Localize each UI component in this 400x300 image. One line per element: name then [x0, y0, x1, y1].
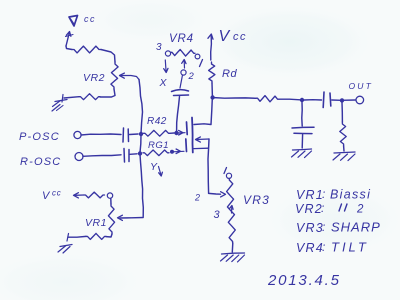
potentiometer VR4 body: [171, 50, 195, 57]
transistor Q1 gate-2 bar: [186, 122, 189, 135]
svg-text:VR1: VR1: [85, 217, 107, 229]
svg-text:R-OSC: R-OSC: [20, 156, 61, 168]
legend line VR4: [296, 240, 369, 256]
resistor (VR1 upper feed): [84, 192, 105, 198]
resistor (Vcc feed, top-left): [72, 46, 101, 53]
capacitor C3 (VR4 wiper): [172, 75, 189, 131]
wire Rd to drain node: [211, 83, 213, 97]
svg-text:VR1: VR1: [296, 188, 324, 202]
VR1 top terminal ring: [107, 193, 112, 198]
wire VR3 to ground: [231, 243, 234, 252]
svg-text:3: 3: [156, 42, 162, 53]
arrowhead to VR1 wiper: [118, 215, 123, 220]
svg-text:TILT: TILT: [331, 240, 369, 255]
resistor R42: [144, 116, 171, 136]
pin 3 label (VR4): [156, 42, 162, 53]
svg-text:2013.4.5: 2013.4.5: [267, 272, 341, 289]
node Y (source label): [150, 161, 162, 176]
potentiometer VR1: [85, 204, 115, 234]
ground (top-left): [52, 100, 67, 112]
wire bias rail (VR2 wiper down to VR1 wiper): [120, 80, 143, 219]
node P-OSC terminal: [19, 131, 81, 143]
svg-text:3: 3: [214, 209, 221, 221]
svg-text:V: V: [219, 28, 231, 45]
svg-text:VR4: VR4: [296, 241, 324, 255]
resistor Rd: [209, 62, 238, 83]
capacitor C2 (R-OSC coupling): [124, 149, 129, 163]
wire to ground (lower-left): [67, 234, 86, 242]
svg-text:VR3: VR3: [243, 193, 270, 207]
potentiometer VR3: [227, 179, 270, 244]
wire R out to node: [279, 98, 300, 101]
resistor RG1: [143, 140, 169, 156]
capacitor C1 (P-OSC coupling): [123, 128, 129, 142]
ground (VR3): [221, 253, 245, 262]
svg-text:Rd: Rd: [222, 68, 237, 80]
svg-text:V: V: [42, 190, 51, 202]
svg-text:VR2: VR2: [83, 72, 105, 84]
wire to ground (top-left): [62, 95, 79, 103]
svg-text:cc: cc: [233, 31, 247, 43]
wire Vcc to R (top-left): [66, 46, 72, 50]
transistor Q1 drain lead: [194, 99, 212, 125]
wire VR1 bottom: [106, 234, 112, 237]
arrow up to Vcc (top-left): [66, 32, 74, 47]
ground (load): [333, 152, 355, 161]
legend line VR1: [296, 187, 371, 202]
node shunt junction: [300, 98, 304, 102]
resistor (output series): [256, 96, 279, 102]
potentiometer VR4 label: [169, 33, 194, 45]
svg-text:2: 2: [356, 204, 364, 216]
legend line VR3: [296, 220, 381, 236]
wire RG1 to gate 1: [170, 149, 184, 154]
VR4 terminal 3 ring: [165, 51, 170, 56]
svg-text:VR4: VR4: [169, 33, 194, 45]
capacitor C5 (shunt to ground): [292, 102, 314, 148]
svg-text:RG1: RG1: [148, 140, 169, 151]
pin 1 label (VR4): [200, 60, 203, 67]
svg-text:R42: R42: [147, 116, 167, 127]
VR4 wiper arrow: [181, 60, 186, 76]
svg-text:cc: cc: [84, 14, 96, 24]
pin 2 label (VR4): [188, 71, 195, 82]
svg-text:2: 2: [188, 71, 195, 82]
svg-text:cc: cc: [52, 189, 62, 198]
svg-text::: :: [322, 220, 326, 234]
pin 1 label (VR3): [224, 168, 232, 179]
node G2 bias junction: [139, 132, 143, 136]
potentiometer VR2: [83, 62, 118, 89]
svg-text:SHARP: SHARP: [331, 220, 381, 235]
wire drain node to R out: [214, 97, 256, 100]
pin 3 label (VR3): [214, 206, 234, 222]
power Vcc (center): [208, 28, 247, 60]
wire R42 to gate 2: [170, 130, 185, 135]
wire C4 to OUT: [332, 99, 356, 101]
svg-text:P-OSC: P-OSC: [19, 131, 60, 143]
VR2 wiper arrow: [120, 73, 140, 79]
svg-text::: :: [322, 240, 326, 254]
ground (lower-left): [58, 245, 72, 254]
wire ring to VR1: [110, 198, 112, 204]
svg-text::: :: [321, 201, 325, 215]
node load junction: [340, 98, 344, 102]
wire source to VR3 wiper: [194, 192, 226, 203]
svg-text:OUT: OUT: [349, 81, 374, 91]
wire VR2 bottom: [100, 89, 115, 97]
power Vcc (lower-left): [42, 189, 84, 203]
ground (shunt cap): [292, 149, 312, 158]
node drain junction: [210, 95, 214, 99]
date annotation: [267, 272, 341, 289]
wire node to C4: [304, 99, 322, 101]
wire C1 to node: [130, 133, 139, 136]
svg-text:VR3: VR3: [296, 221, 324, 235]
legend line VR2: [295, 201, 364, 216]
svg-text:2: 2: [194, 193, 201, 203]
wire R-OSC to C2: [83, 155, 121, 157]
wire C2 to node: [130, 153, 137, 156]
arrow X (VR4 terminal 3 down): [159, 60, 169, 89]
transistor Q1 source arrow: [194, 137, 209, 193]
resistor (VR2 lower arm): [79, 94, 100, 100]
node R-OSC terminal: [20, 153, 83, 169]
capacitor C4 (output coupling): [323, 92, 331, 108]
svg-text:Biassi: Biassi: [330, 188, 371, 202]
VR4 terminal 1 ring: [195, 54, 200, 59]
resistor (output load): [340, 103, 346, 152]
node OUT terminal: [349, 81, 374, 104]
wire P-OSC to C1: [81, 134, 121, 135]
svg-text:X: X: [159, 77, 168, 89]
power Vcc symbol (top-left): [69, 14, 96, 26]
svg-text:VR2: VR2: [295, 202, 323, 216]
resistor (VR1 lower arm): [86, 233, 106, 239]
svg-text:Y: Y: [150, 161, 158, 173]
svg-text::: :: [322, 187, 326, 201]
wire R to VR2 top: [101, 50, 115, 63]
node G1 bias junction: [138, 151, 142, 155]
transistor Q1 gate-1 bar: [185, 139, 188, 152]
transistor Q1 channel: [191, 118, 194, 153]
